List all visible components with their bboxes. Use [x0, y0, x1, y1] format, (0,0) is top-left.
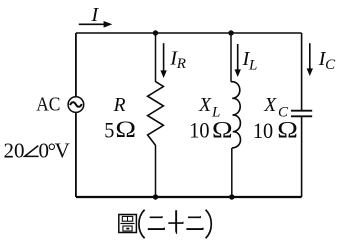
caption open paren — [139, 210, 145, 238]
capacitor XC plate top — [291, 110, 312, 112]
capacitor XC plate bottom — [291, 115, 312, 117]
current arrow IR shaft — [163, 43, 165, 72]
wire left upper (source to top) — [75, 33, 77, 97]
svg-text:20: 20 — [4, 138, 25, 162]
caption 圖 top inner box — [122, 216, 132, 221]
svg-text:10: 10 — [253, 118, 273, 143]
wire top — [76, 32, 302, 34]
svg-text:X: X — [198, 95, 212, 116]
wire R branch bottom — [155, 145, 157, 197]
node junction bottom L — [229, 194, 234, 199]
caption 圖 bottom inner square — [126, 228, 129, 230]
current arrow IR head — [160, 70, 166, 78]
wire left lower (source to bottom) — [75, 112, 77, 197]
caption close paren — [206, 210, 212, 238]
node junction bottom R — [153, 194, 158, 199]
svg-text:X: X — [263, 95, 277, 116]
caption figure box glyph 圖 outer — [119, 215, 137, 233]
inductor XL — [231, 82, 240, 148]
svg-text:I: I — [90, 4, 99, 26]
AC source circle — [68, 97, 84, 113]
svg-text:L: L — [248, 57, 257, 73]
caption 十 vertical stroke — [175, 210, 177, 234]
node junction top R — [153, 30, 158, 35]
angle symbol — [25, 146, 39, 157]
current arrow I head — [104, 21, 113, 28]
svg-text:Ω: Ω — [212, 117, 233, 144]
current arrow IC shaft — [309, 43, 311, 70]
wire C branch bottom — [301, 116, 303, 197]
caption 十 horizontal stroke — [168, 222, 183, 224]
caption 圖 bottom inner box — [123, 226, 132, 231]
wire L branch bottom — [231, 148, 233, 197]
current arrow IC head — [307, 68, 313, 76]
svg-text:5: 5 — [104, 117, 114, 142]
svg-text:R: R — [176, 56, 186, 72]
resistor R — [148, 82, 164, 146]
caption 二 first bottom stroke — [148, 227, 165, 230]
svg-text:0°V: 0°V — [39, 138, 70, 162]
AC source sine symbol — [70, 102, 82, 107]
wire C branch top — [301, 33, 303, 110]
svg-text:Ω: Ω — [115, 116, 136, 143]
current arrow IL head — [235, 69, 241, 77]
wire L branch top — [230, 33, 232, 82]
current arrow IL shaft — [237, 44, 239, 71]
svg-text:10: 10 — [189, 118, 209, 143]
svg-text:R: R — [113, 95, 126, 116]
caption 二 second bottom stroke — [186, 227, 203, 230]
wire bottom — [76, 196, 302, 198]
svg-text:AC: AC — [36, 93, 60, 116]
caption 圖 top inner tick — [127, 216, 129, 221]
current arrow I shaft — [79, 23, 105, 25]
svg-text:C: C — [325, 57, 336, 73]
svg-text:Ω: Ω — [277, 117, 298, 144]
caption 二 first top stroke — [150, 216, 163, 218]
caption 二 second top stroke — [188, 216, 201, 218]
node junction top L — [228, 30, 233, 35]
wire R branch top — [155, 33, 157, 82]
caption 圖 middle stroke — [120, 223, 134, 225]
